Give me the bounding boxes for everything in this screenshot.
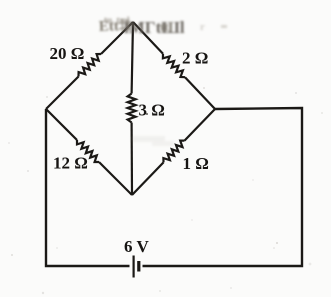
svg-text:12 Ω: 12 Ω: [53, 154, 88, 173]
svg-text:lМΓtШl: lМΓtШl: [124, 18, 185, 37]
battery V1 long plate: [133, 256, 135, 278]
svg-text:1 Ω: 1 Ω: [183, 154, 209, 173]
resistor 20 ohm (top-left arm): [101, 22, 133, 54]
svg-text:tu. tml: tu. tml: [104, 15, 130, 25]
faint smudge mid area: [131, 136, 174, 146]
paper specks: [8, 87, 323, 294]
speck dot after 3: [146, 113, 148, 115]
bleed-through smudge text near top node: [99, 15, 185, 37]
svg-text:6 V: 6 V: [124, 237, 149, 256]
svg-text:3 Ω: 3 Ω: [139, 101, 165, 120]
resistor 12 ohm (bottom-left arm): [46, 109, 77, 140]
battery V1 short plate: [137, 261, 140, 272]
wire bottom-right and right rail up to right node: [143, 108, 303, 266]
svg-text:r: r: [200, 21, 205, 33]
resistor 2 ohm (top-right arm): [133, 22, 163, 54]
svg-text:20 Ω: 20 Ω: [50, 44, 85, 63]
svg-text:2 Ω: 2 Ω: [182, 49, 208, 68]
wire left rail: left node down to bottom-left corner, then to battery: [46, 109, 130, 266]
resistor 1 ohm (bottom-right arm): [185, 109, 216, 141]
resistor 3 ohm (middle vertical): [132, 22, 133, 94]
svg-text:ttl: ttl: [160, 19, 173, 34]
